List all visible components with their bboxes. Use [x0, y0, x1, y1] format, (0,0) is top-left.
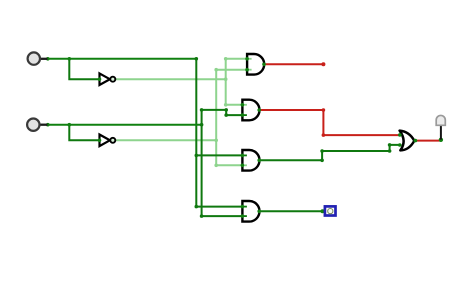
corner green AND3 route c	[388, 149, 392, 153]
LED D1	[436, 115, 445, 139]
pin dot AND2 output	[257, 108, 261, 112]
corner notB bus top	[214, 68, 218, 72]
wire NOT-A to AND2 top input	[226, 104, 243, 106]
wire A to AND3 top input	[196, 154, 242, 156]
pin dot AND2 input 1	[241, 103, 245, 107]
AND gate U3 (inputs A, notB)	[242, 150, 259, 171]
wire AND1 output (red, dangling)	[264, 63, 323, 65]
pin dot AND3 input 2	[241, 164, 245, 168]
input pin B	[27, 119, 47, 131]
corner green AND3 route a	[320, 159, 324, 163]
output pin O1 (square)	[325, 206, 336, 215]
corner red AND2 route top	[322, 108, 326, 112]
corner B bus bottom	[200, 214, 204, 218]
pin dot OR output	[414, 139, 418, 143]
wire A bus vertical	[195, 59, 197, 207]
OR gate U7	[400, 131, 415, 151]
corner notA bus bottom	[224, 103, 228, 107]
wire A drop to NOT1	[69, 59, 99, 79]
junction notA bus / NOT1 output	[224, 77, 228, 81]
junction pin A stub	[46, 57, 50, 61]
pin dot AND1 input 1	[245, 57, 249, 61]
pin dot NOT1 input	[98, 77, 102, 81]
AND gate U1 (inputs notA, notB)	[247, 54, 264, 75]
wire NOT-B to AND1 bottom input	[216, 69, 247, 71]
wire NOT1 output	[116, 78, 226, 80]
wire AND2 output to OR top input (red)	[259, 110, 399, 135]
pin dot AND1 input 2	[245, 68, 249, 72]
wire AND4 output to output pin	[259, 210, 322, 212]
wire B to AND4 bottom input	[202, 215, 243, 217]
corner A bus bottom	[195, 205, 199, 209]
junction B bus / B row	[200, 123, 204, 127]
NOT gate U5 (inverter for A)	[100, 73, 116, 85]
wire NOT2 output	[116, 139, 217, 141]
pin dot AND4 input 2	[241, 214, 245, 218]
corner B jog right	[224, 108, 228, 112]
junction notB bus / NOT2 output	[214, 139, 218, 143]
corner red AND2 route bottom	[322, 133, 326, 137]
wire NOT-A to AND1 top input	[226, 58, 247, 60]
wire NOT-B to AND3 bottom input	[216, 164, 242, 166]
wire B drop to NOT2	[69, 125, 99, 141]
wire AND3 output to OR bottom input	[259, 145, 399, 160]
pin dot AND2 input 2	[241, 113, 245, 117]
wire NOT-A bus vertical	[225, 59, 227, 105]
corner green AND3 route d	[388, 143, 392, 147]
pin dot NOT2 input	[98, 139, 102, 143]
pin dot OR input 1	[398, 133, 402, 137]
AND gate U4 (inputs A, B)	[242, 201, 259, 222]
pin dot AND3 output	[257, 159, 261, 163]
NOT gate U6 (inverter for B)	[100, 135, 116, 147]
input pin A	[28, 52, 48, 64]
corner B jog top	[200, 108, 204, 112]
junction B / NOT2 drop	[68, 123, 72, 127]
AND gate U2 (inputs notA, B)	[242, 100, 259, 121]
corner B jog down	[224, 113, 228, 117]
wire OR output to LED (red)	[415, 140, 441, 142]
pin dot OR input 2	[398, 143, 402, 147]
corner A bus top	[195, 57, 199, 61]
pin dot AND4 input 1	[241, 205, 245, 209]
junction A / NOT1 drop	[68, 57, 72, 61]
wire B row	[48, 124, 202, 126]
pin dot AND4 output	[257, 210, 261, 214]
corner green AND3 route b	[320, 149, 324, 153]
wire A row	[48, 58, 197, 60]
corner notB bus bottom	[214, 164, 218, 168]
wire A to AND4 top input	[196, 206, 242, 208]
junction A bus / AND3	[195, 154, 199, 158]
pin dot AND1 output	[262, 63, 266, 67]
node AND4 output at pin	[321, 209, 325, 213]
junction pin B stub	[46, 123, 50, 127]
node LED connection	[439, 138, 443, 142]
wire NOT-B bus vertical	[215, 70, 217, 166]
corner notA bus top	[224, 57, 228, 61]
pin dot AND3 input 1	[241, 154, 245, 158]
red wire end dot (AND1 dangling output)	[321, 62, 325, 66]
wire B bus vertical	[201, 110, 203, 216]
wire B jog to AND2 bottom input	[202, 110, 243, 115]
